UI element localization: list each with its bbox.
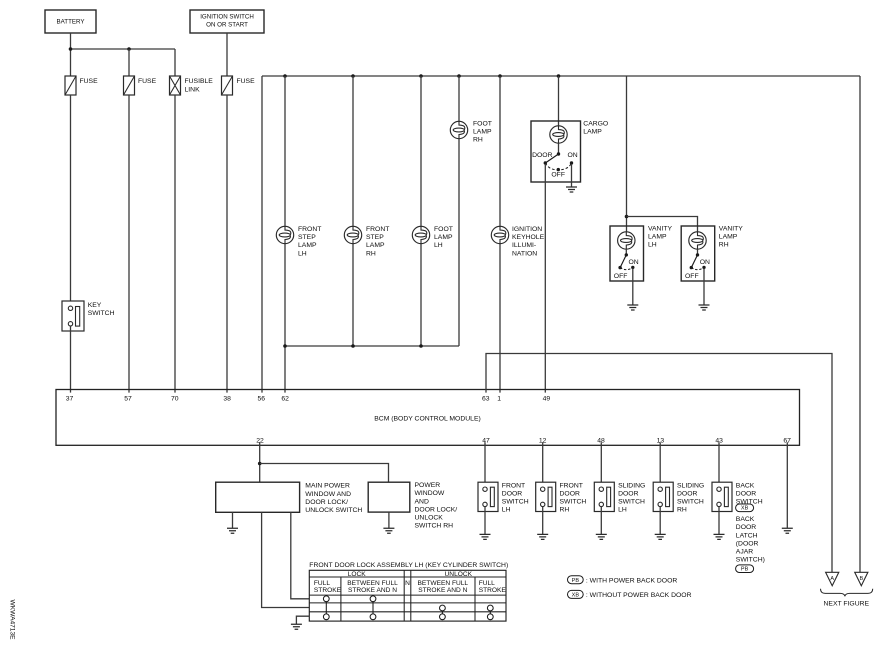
- node bus junction x500: [498, 74, 502, 78]
- pin 1 (BCM top): [497, 395, 501, 402]
- label cargo lamp: [583, 121, 608, 136]
- wire ignition keyhole illumination branch / BCM pin 1: [499, 76, 501, 393]
- svg-text:N: N: [405, 580, 410, 587]
- node cargo OFF contact: [557, 168, 560, 171]
- sliding door switch RH: [653, 482, 673, 511]
- wire BCM to back door switch: [718, 442, 720, 487]
- svg-text:LH: LH: [434, 242, 443, 249]
- pin 38 (BCM top): [223, 395, 231, 402]
- label cargo OFF position: [551, 172, 565, 179]
- wire fuse F2 to BCM pin 57: [128, 95, 130, 393]
- svg-text:UNLOCK: UNLOCK: [415, 514, 444, 521]
- wire fuse2 feed: [128, 49, 130, 76]
- node pin22 branch junction: [258, 462, 262, 466]
- node battery feed junction: [69, 47, 73, 51]
- svg-text:SLIDING: SLIDING: [677, 482, 704, 489]
- svg-text:DOOR LOCK/: DOOR LOCK/: [305, 499, 348, 506]
- label LOCK header: [348, 571, 367, 578]
- label full stroke (lock): [314, 580, 342, 594]
- node cargo ON contact: [570, 161, 573, 164]
- wire BCM to front door switch RH: [542, 442, 544, 487]
- PB code oval (back door latch): [736, 565, 754, 573]
- key cylinder contact full-stroke unlock: [487, 605, 493, 620]
- svg-text:LATCH: LATCH: [736, 532, 758, 539]
- node vanity RH ON contact: [702, 266, 705, 269]
- svg-text:FRONT: FRONT: [366, 226, 389, 233]
- XB code oval (back door switch): [736, 504, 754, 512]
- label sliding door switch RH: [677, 482, 704, 513]
- vanity LH switch lever: [620, 255, 626, 268]
- node vanity LH OFF contact: [618, 266, 621, 269]
- fusible link: [170, 76, 214, 95]
- wire main switch to ground: [232, 512, 234, 528]
- svg-text:LAMP: LAMP: [719, 234, 738, 241]
- node vanity LH ON contact: [631, 266, 634, 269]
- wire ignition switch lead: [226, 33, 228, 76]
- label front door lock assembly title: [309, 562, 508, 569]
- svg-text:BETWEEN FULL: BETWEEN FULL: [347, 580, 398, 587]
- svg-text:FUSE: FUSE: [237, 78, 256, 85]
- node vanity RH OFF contact: [690, 266, 693, 269]
- pin 48 (BCM bottom): [597, 438, 605, 445]
- wire lamp supply bus: [262, 75, 860, 77]
- ground front door switch LH: [480, 534, 491, 539]
- wire BCM pin 56 riser: [261, 76, 263, 393]
- wire vanity RH lamp to switch: [697, 249, 699, 255]
- svg-text:47: 47: [482, 438, 490, 445]
- node vanity LH switch common: [625, 253, 628, 256]
- key cylinder switch table grid: [309, 570, 506, 621]
- wire fuse F4 to BCM pin 38: [226, 95, 228, 393]
- label vanity lamp LH: [648, 226, 673, 249]
- svg-text:FRONT: FRONT: [502, 482, 525, 489]
- svg-text:WINDOW: WINDOW: [415, 490, 445, 497]
- wire key switch to BCM pin 37: [70, 326, 72, 393]
- svg-text:LINK: LINK: [185, 86, 201, 93]
- svg-text:FRONT: FRONT: [560, 482, 583, 489]
- svg-text:FULL: FULL: [479, 580, 495, 587]
- ground cargo lamp: [566, 187, 577, 192]
- svg-text:SLIDING: SLIDING: [618, 482, 645, 489]
- cargo switch lever: [545, 154, 558, 163]
- svg-text:POWER: POWER: [415, 482, 441, 489]
- pin 37 (BCM top): [66, 395, 74, 402]
- svg-text:BCM (BODY CONTROL MODULE): BCM (BODY CONTROL MODULE): [374, 415, 481, 422]
- svg-text:FOOT: FOOT: [473, 121, 492, 128]
- node bus junction x421: [419, 74, 423, 78]
- label front door switch LH: [502, 482, 529, 513]
- label front door switch RH: [560, 482, 587, 513]
- lamp foot LH: [412, 226, 429, 243]
- node cargo switch common: [557, 152, 560, 155]
- node fuse2 feed junction: [127, 47, 131, 51]
- wire vanity RH ON to ground: [703, 268, 705, 305]
- svg-text:DOOR: DOOR: [618, 490, 638, 497]
- wire front door switch LH to ground: [484, 507, 486, 535]
- svg-text:KEYHOLE: KEYHOLE: [512, 234, 545, 241]
- svg-text:70: 70: [171, 395, 179, 402]
- wire vanity LH ON to ground: [632, 268, 634, 305]
- svg-text:ON: ON: [629, 259, 639, 266]
- label front step lamp RH: [366, 226, 389, 257]
- sliding door switch LH: [594, 482, 614, 511]
- svg-text:LAMP: LAMP: [648, 234, 667, 241]
- node collector junction x421: [419, 344, 423, 348]
- front door switch RH: [536, 482, 556, 511]
- label back door switch: [736, 482, 763, 505]
- lamp ignition keyhole illumination: [491, 226, 508, 243]
- svg-text:LOCK: LOCK: [348, 571, 367, 578]
- label vanity LH ON: [629, 259, 639, 266]
- svg-text:STROKE AND N: STROKE AND N: [418, 587, 467, 594]
- svg-text:RH: RH: [677, 507, 687, 514]
- svg-text:FUSE: FUSE: [138, 78, 157, 85]
- svg-text:FRONT DOOR LOCK ASSEMBLY LH (K: FRONT DOOR LOCK ASSEMBLY LH (KEY CYLINDE…: [309, 562, 508, 569]
- svg-text:DOOR: DOOR: [560, 490, 580, 497]
- wire vanity LH lamp to switch: [625, 249, 627, 255]
- wire battery feed bus: [71, 48, 176, 50]
- wire battery lead: [70, 33, 72, 76]
- label between full stroke and n (unlock): [418, 580, 469, 594]
- lamp front step LH: [276, 226, 293, 243]
- label power window switch RH: [415, 482, 458, 529]
- pin 56 (BCM top): [258, 395, 266, 402]
- vanity lamp RH box: [681, 226, 715, 281]
- svg-text:CARGO: CARGO: [583, 121, 608, 128]
- label main power window switch: [305, 483, 362, 514]
- cargo switch dashed throw arc: [545, 163, 571, 170]
- svg-text:: WITH POWER BACK DOOR: : WITH POWER BACK DOOR: [586, 577, 677, 584]
- svg-text:XB: XB: [572, 593, 580, 599]
- svg-text:SWITCH: SWITCH: [88, 310, 115, 317]
- label vanity RH ON: [700, 259, 710, 266]
- svg-text:LAMP: LAMP: [583, 129, 602, 136]
- label foot lamp RH: [473, 121, 492, 144]
- BCM (body control module) box: [56, 390, 800, 446]
- svg-text:UNLOCK SWITCH: UNLOCK SWITCH: [305, 507, 362, 514]
- label ignition keyhole illumination: [512, 226, 545, 257]
- svg-text:DOOR: DOOR: [502, 490, 522, 497]
- back door switch: [712, 482, 732, 511]
- svg-text:LH: LH: [618, 507, 627, 514]
- label UNLOCK header: [445, 571, 473, 578]
- pin 57 (BCM top): [124, 395, 132, 402]
- label N column: [405, 580, 410, 587]
- node collector junction x285: [283, 344, 287, 348]
- label between full stroke and n (lock): [347, 580, 398, 594]
- pin 43 (BCM bottom): [715, 438, 723, 445]
- pin 63 (BCM top): [482, 395, 490, 402]
- svg-text:FOOT: FOOT: [434, 226, 453, 233]
- svg-text:KEY: KEY: [88, 302, 102, 309]
- ground main power window switch: [227, 528, 238, 533]
- connector arrow B: [855, 572, 868, 585]
- svg-text:A: A: [830, 576, 834, 582]
- svg-text:SWITCH: SWITCH: [618, 499, 645, 506]
- front door switch LH: [478, 482, 498, 511]
- svg-text:RH: RH: [473, 137, 483, 144]
- svg-text:STROKE: STROKE: [314, 587, 342, 594]
- svg-text:WINDOW AND: WINDOW AND: [305, 491, 351, 498]
- svg-text:OFF: OFF: [551, 172, 565, 179]
- label front step lamp LH: [298, 226, 321, 257]
- fuse F4 (ignition): [222, 76, 256, 95]
- brace under arrows: [821, 589, 873, 597]
- node bus junction x558.5: [557, 74, 561, 78]
- wire cargo DOOR contact to BCM pin 49: [544, 164, 546, 393]
- legend XB oval: [568, 590, 584, 598]
- svg-text:IGNITION: IGNITION: [512, 226, 542, 233]
- svg-text:LH: LH: [298, 250, 307, 257]
- wire bus to next figure B: [859, 76, 861, 572]
- label next figure: [824, 600, 870, 607]
- lamp vanity RH: [689, 232, 706, 249]
- svg-text:49: 49: [543, 395, 551, 402]
- node collector junction x353: [351, 344, 355, 348]
- wire branch to power window switch RH: [260, 464, 389, 483]
- svg-text:DOOR: DOOR: [532, 152, 552, 159]
- label vanity RH OFF: [685, 273, 699, 280]
- wire fusible link feed: [174, 49, 176, 76]
- svg-text:37: 37: [66, 395, 74, 402]
- ground BCM pin 67: [782, 528, 793, 533]
- svg-text:: WITHOUT POWER BACK DOOR: : WITHOUT POWER BACK DOOR: [586, 592, 692, 599]
- legend PB text: [586, 577, 677, 584]
- fuse F1 (battery): [65, 76, 98, 95]
- svg-text:BACK: BACK: [736, 482, 755, 489]
- pin 62 (BCM top): [281, 395, 289, 402]
- pin 13 (BCM bottom): [657, 438, 665, 445]
- wire lamp return collector: [285, 345, 459, 347]
- svg-text:PB: PB: [741, 567, 749, 573]
- svg-text:63: 63: [482, 395, 490, 402]
- svg-text:PB: PB: [572, 578, 580, 584]
- watermark figure code: [9, 599, 16, 640]
- svg-text:XB: XB: [741, 506, 749, 512]
- svg-text:SWITCH: SWITCH: [502, 499, 529, 506]
- svg-text:RH: RH: [560, 507, 570, 514]
- pin 70 (BCM top): [171, 395, 179, 402]
- pin 47 (BCM bottom): [482, 438, 490, 445]
- ignition switch ON OR START: [190, 10, 264, 33]
- pin 49 (BCM top): [543, 395, 551, 402]
- node bus junction x459: [457, 74, 461, 78]
- key switch: [62, 301, 115, 331]
- wire cargo ON contact to ground: [571, 164, 573, 187]
- svg-text:DOOR LOCK/: DOOR LOCK/: [415, 506, 458, 513]
- node cargo DOOR contact: [544, 161, 547, 164]
- pin 12 (BCM bottom): [539, 438, 547, 445]
- legend XB text: [586, 592, 692, 599]
- node vanity RH switch common: [696, 253, 699, 256]
- ground sliding door switch LH: [596, 534, 607, 539]
- wire main switch to key cylinder row 3: [291, 512, 310, 599]
- ground vanity RH: [699, 305, 710, 310]
- battery: [45, 10, 96, 33]
- key cylinder contact between lock: [370, 596, 376, 620]
- label sliding door switch LH: [618, 482, 645, 513]
- legend PB oval: [568, 576, 584, 584]
- power window and door lock/unlock switch RH box: [368, 482, 410, 512]
- wire vanity RH branch: [627, 217, 698, 233]
- svg-text:38: 38: [223, 395, 231, 402]
- wire front step lamp RH branch: [352, 76, 354, 346]
- main power window and door lock/unlock switch box: [216, 482, 300, 512]
- svg-text:1: 1: [497, 395, 501, 402]
- wire vanity lamp LH branch: [626, 76, 628, 232]
- wire BCM pin 67 to ground: [786, 442, 788, 528]
- wire BCM to sliding door switch RH: [659, 442, 661, 487]
- ground sliding door switch RH: [655, 534, 666, 539]
- fuse F2: [124, 76, 157, 95]
- wire key cylinder row5 to ground: [296, 616, 309, 624]
- wire BCM pin 63 to next figure A: [486, 354, 832, 573]
- wire foot lamp LH branch: [420, 76, 422, 346]
- ground vanity LH: [627, 305, 638, 310]
- svg-text:BACK: BACK: [736, 516, 755, 523]
- lamp vanity LH: [618, 232, 635, 249]
- node bus junction x285: [283, 74, 287, 78]
- svg-text:NEXT FIGURE: NEXT FIGURE: [824, 600, 870, 607]
- svg-text:LH: LH: [502, 507, 511, 514]
- label full stroke (unlock): [479, 580, 507, 594]
- svg-text:AJAR: AJAR: [736, 549, 753, 556]
- ground key cylinder switch: [291, 624, 302, 629]
- svg-text:ON: ON: [568, 152, 578, 159]
- svg-text:OFF: OFF: [614, 273, 628, 280]
- label vanity LH OFF: [614, 273, 628, 280]
- wire front step lamp LH branch / BCM pin 62: [284, 76, 286, 393]
- wire front door switch RH to ground: [542, 507, 544, 535]
- wire fuse F1 to key switch: [70, 95, 72, 306]
- svg-text:ON: ON: [700, 259, 710, 266]
- vanity RH switch lever: [691, 255, 697, 268]
- label BCM: [374, 415, 481, 422]
- label cargo ON position: [568, 152, 578, 159]
- svg-text:DOOR: DOOR: [736, 524, 756, 531]
- wire BCM to front door switch LH: [484, 442, 486, 487]
- svg-text:56: 56: [258, 395, 266, 402]
- svg-text:(DOOR: (DOOR: [736, 540, 759, 547]
- wire RH switch to ground: [388, 512, 390, 528]
- svg-text:STROKE AND N: STROKE AND N: [348, 587, 397, 594]
- wire sliding door switch RH to ground: [659, 507, 661, 535]
- svg-text:DOOR: DOOR: [736, 490, 756, 497]
- svg-text:62: 62: [281, 395, 289, 402]
- ground power window switch RH: [383, 528, 394, 533]
- key cylinder contact between unlock: [440, 605, 446, 620]
- svg-text:LH: LH: [648, 242, 657, 249]
- ground back door switch: [714, 534, 725, 539]
- lamp front step RH: [344, 226, 361, 243]
- ground front door switch RH: [537, 534, 548, 539]
- lamp cargo: [550, 126, 567, 143]
- svg-text:VANITY: VANITY: [719, 226, 744, 233]
- vanity lamp LH box: [610, 226, 644, 281]
- svg-text:UNLOCK: UNLOCK: [445, 571, 473, 578]
- svg-text:SWITCH: SWITCH: [560, 499, 587, 506]
- svg-text:STEP: STEP: [298, 234, 316, 241]
- svg-text:BETWEEN FULL: BETWEEN FULL: [418, 580, 469, 587]
- wire foot lamp RH branch: [458, 76, 460, 346]
- wire back door switch to ground: [718, 507, 720, 535]
- svg-text:VANITY: VANITY: [648, 226, 673, 233]
- svg-text:LAMP: LAMP: [473, 129, 492, 136]
- svg-text:FRONT: FRONT: [298, 226, 321, 233]
- svg-text:SWITCH: SWITCH: [677, 499, 704, 506]
- label foot lamp LH: [434, 226, 453, 249]
- svg-text:SWITCH): SWITCH): [736, 557, 765, 564]
- svg-text:IGNITION SWITCH: IGNITION SWITCH: [200, 13, 254, 20]
- svg-text:SWITCH RH: SWITCH RH: [415, 523, 454, 530]
- svg-text:STEP: STEP: [366, 234, 384, 241]
- svg-text:STROKE: STROKE: [479, 587, 507, 594]
- label cargo DOOR position: [532, 152, 552, 159]
- svg-text:FULL: FULL: [314, 580, 330, 587]
- svg-text:57: 57: [124, 395, 132, 402]
- svg-text:ON OR START: ON OR START: [206, 22, 248, 29]
- svg-text:LAMP: LAMP: [298, 242, 317, 249]
- wire sliding door switch LH to ground: [600, 507, 602, 535]
- svg-text:MAIN POWER: MAIN POWER: [305, 483, 350, 490]
- svg-text:B: B: [859, 576, 863, 582]
- wire BCM to sliding door switch LH: [600, 442, 602, 487]
- svg-text:RH: RH: [366, 250, 376, 257]
- svg-text:FUSIBLE: FUSIBLE: [185, 78, 214, 85]
- key cylinder contact full-stroke lock: [323, 596, 329, 620]
- node bus junction x353: [351, 74, 355, 78]
- node vanity branch junction: [625, 215, 629, 219]
- svg-text:OFF: OFF: [685, 273, 699, 280]
- svg-text:FUSE: FUSE: [80, 78, 99, 85]
- cargo lamp assembly box: [531, 121, 581, 182]
- svg-text:AND: AND: [415, 498, 429, 505]
- wire main switch to key cylinder row 4: [262, 512, 310, 607]
- wire BCM pin 22 to main power window switch: [259, 442, 261, 482]
- pin 22 (BCM bottom): [256, 438, 264, 445]
- pin 67 (BCM bottom): [783, 438, 791, 445]
- lamp foot RH: [450, 121, 467, 138]
- svg-text:LAMP: LAMP: [366, 242, 385, 249]
- connector arrow A: [826, 572, 839, 585]
- wire cargo lamp to switch common: [558, 143, 560, 154]
- vanity RH dashed throw arc: [691, 267, 704, 269]
- svg-text:ILLUMI-: ILLUMI-: [512, 242, 536, 249]
- svg-text:RH: RH: [719, 242, 729, 249]
- svg-text:WKWA4713E: WKWA4713E: [9, 599, 16, 640]
- svg-text:LAMP: LAMP: [434, 234, 453, 241]
- svg-text:DOOR: DOOR: [677, 490, 697, 497]
- svg-text:NATION: NATION: [512, 250, 537, 257]
- vanity LH dashed throw arc: [620, 267, 633, 269]
- label back door latch: [736, 516, 765, 564]
- wire cargo lamp branch: [558, 76, 560, 126]
- svg-text:BATTERY: BATTERY: [57, 19, 85, 26]
- label vanity lamp RH: [719, 226, 744, 249]
- wire fusible link to BCM pin 70: [174, 95, 176, 393]
